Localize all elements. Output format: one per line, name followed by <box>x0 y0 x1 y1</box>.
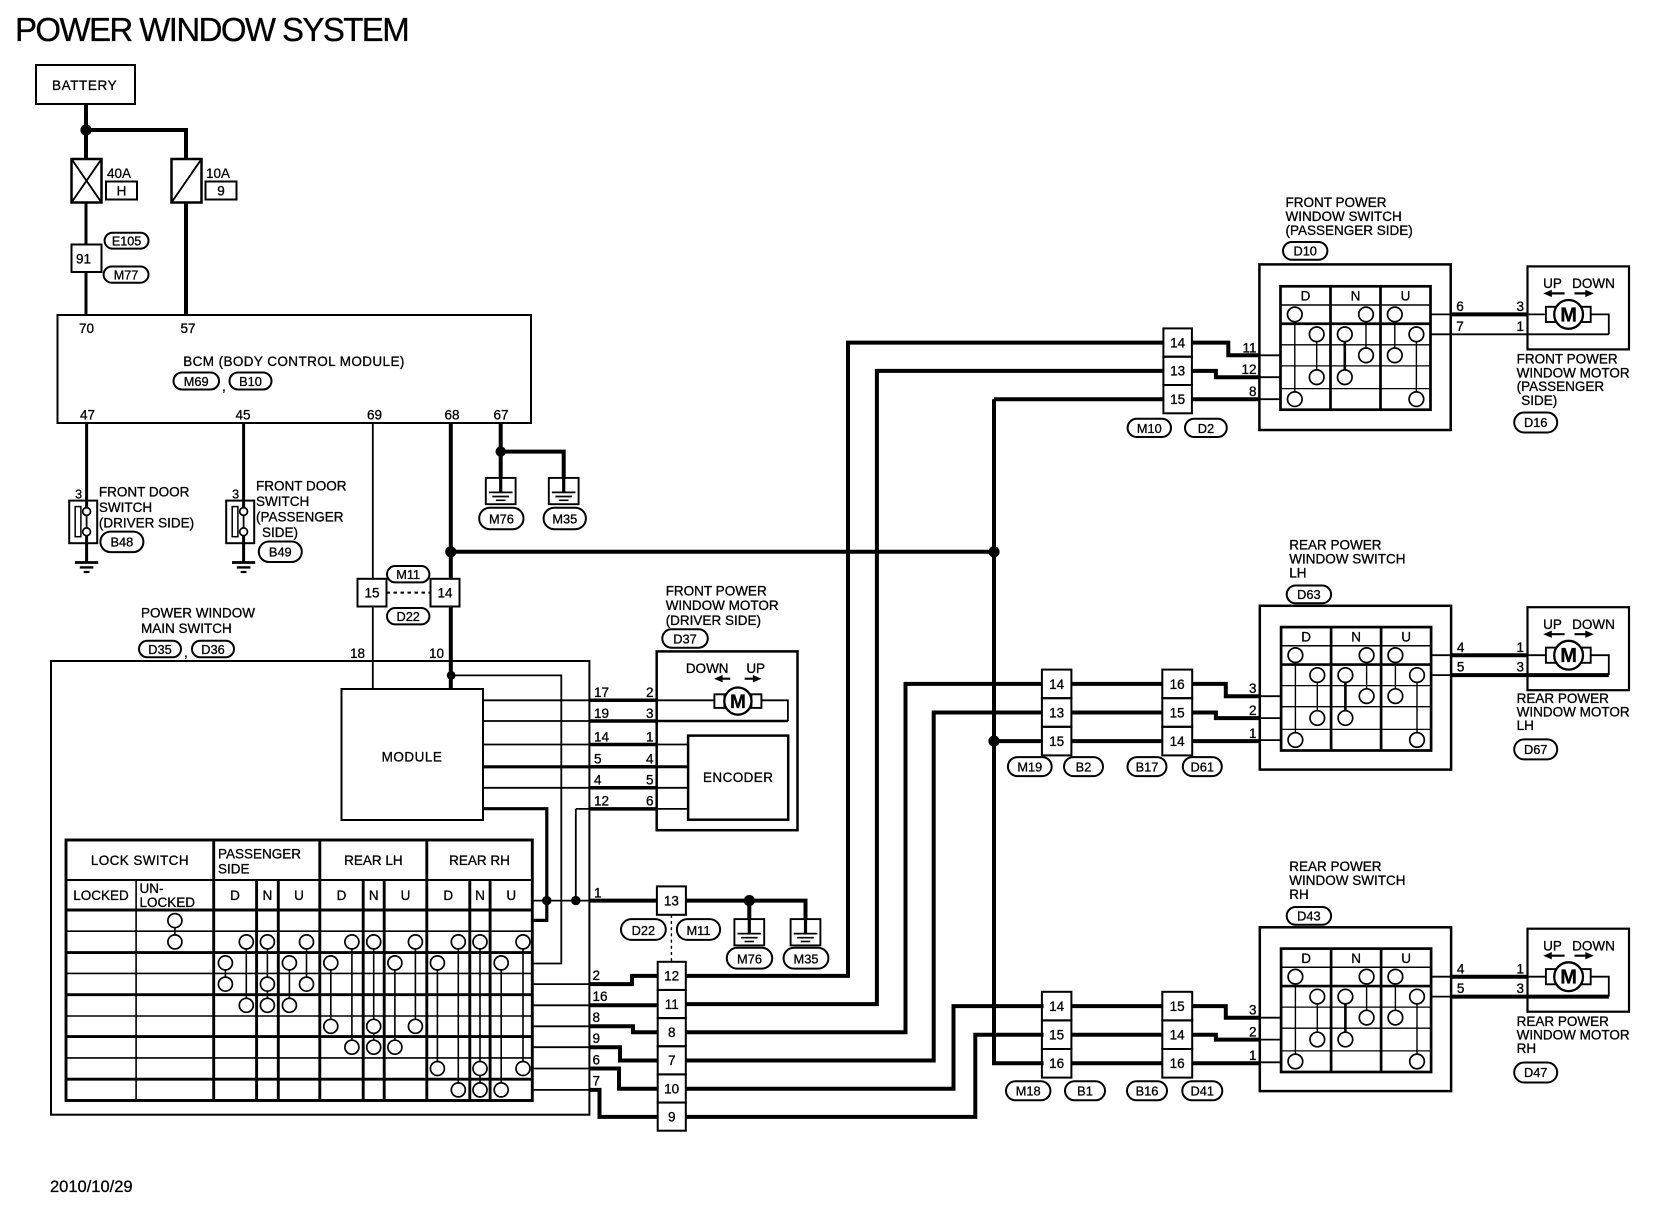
connector box 15 (left col D63) <box>1042 727 1072 756</box>
wire pin 2 to motor <box>657 699 715 701</box>
svg-text:69: 69 <box>367 408 382 423</box>
chassis ground below passenger door switch <box>232 563 255 573</box>
junction on power trunk <box>988 546 999 557</box>
wire connector 14 to main switch pin 10 <box>449 607 453 690</box>
svg-text:11: 11 <box>1242 340 1256 355</box>
wire pin10 branch to table row R3 <box>451 675 561 963</box>
connector box 13 (D10 feed) <box>1163 357 1192 385</box>
svg-text:D35: D35 <box>148 642 171 657</box>
svg-text:19: 19 <box>594 706 609 721</box>
connector B49 <box>259 542 302 563</box>
svg-text:3: 3 <box>1516 660 1524 675</box>
svg-text:WINDOW SWITCH: WINDOW SWITCH <box>1289 552 1405 567</box>
svg-text:ENCODER: ENCODER <box>703 770 773 785</box>
wire connector 15 to main switch pin 18 <box>372 607 374 690</box>
svg-text:47: 47 <box>80 408 95 423</box>
switch box D43 <box>1260 927 1451 1091</box>
wire encoder pin 6 <box>657 808 688 810</box>
svg-text:15: 15 <box>1049 734 1064 749</box>
rear RH contacts <box>430 935 530 1097</box>
wire module pin 5 (thick) <box>483 765 589 768</box>
wire D43 pin 1 <box>1192 1061 1260 1065</box>
connector D61 <box>1183 757 1222 776</box>
svg-text:M35: M35 <box>552 512 577 527</box>
svg-text:57: 57 <box>180 321 195 336</box>
connector box 15 (left col D43) <box>1042 1020 1072 1049</box>
wire table row to pin 6 <box>532 1068 589 1070</box>
wire D63 pin 2 <box>1192 713 1260 719</box>
connector box 16 (left col D43) <box>1042 1049 1072 1078</box>
svg-text:D16: D16 <box>1524 415 1547 430</box>
power window main switch box D35 D36 <box>51 661 589 1115</box>
svg-text:17: 17 <box>594 685 609 700</box>
svg-text:3: 3 <box>1249 1003 1257 1018</box>
svg-text:N: N <box>369 888 379 903</box>
svg-text:UN-: UN- <box>140 881 164 896</box>
wire 91 to BCM pin 70 <box>85 272 88 315</box>
svg-text:D63: D63 <box>1297 587 1320 602</box>
svg-text:WINDOW MOTOR: WINDOW MOTOR <box>666 598 779 613</box>
svg-text:4: 4 <box>1457 961 1465 976</box>
switch box D63 <box>1260 606 1451 770</box>
svg-text:5: 5 <box>594 752 602 767</box>
wire BCM pin 68 to connector 14 <box>449 423 453 579</box>
connector M35 label (top) <box>544 508 586 530</box>
connector box 15 <box>358 579 387 607</box>
svg-text:3: 3 <box>1249 681 1257 696</box>
svg-text:SWITCH: SWITCH <box>256 494 309 509</box>
connector D35 <box>139 641 181 658</box>
wire battery node to fuse 10A <box>86 130 186 159</box>
wire D43 pair row 15-14 <box>1071 1033 1162 1037</box>
connector M19 <box>1008 757 1052 776</box>
svg-text:M69: M69 <box>184 374 209 389</box>
svg-text:H: H <box>117 184 127 199</box>
svg-text:D61: D61 <box>1191 759 1214 774</box>
junction wire1 pin12 <box>571 896 580 905</box>
svg-text:3: 3 <box>75 488 82 502</box>
svg-text:(PASSENGER: (PASSENGER <box>1517 379 1605 394</box>
fuse 10A <box>172 159 202 203</box>
svg-text:13: 13 <box>1049 705 1064 720</box>
svg-text:15: 15 <box>1170 705 1185 720</box>
front power window motor (driver side) box D37 <box>657 651 798 830</box>
svg-text:14: 14 <box>1049 999 1065 1014</box>
label D67 motor <box>1517 691 1630 733</box>
wire 1 internal <box>532 900 589 902</box>
svg-text:2010/10/29: 2010/10/29 <box>50 1178 133 1196</box>
svg-text:11: 11 <box>665 997 679 1012</box>
wire main 7 to rear RH switch (trunk) <box>686 1035 1044 1117</box>
dashed link 13 to 12 <box>670 915 672 962</box>
svg-text:B16: B16 <box>1136 1084 1159 1099</box>
svg-text:U: U <box>294 888 304 903</box>
wire D43 pair row 14-15 <box>1071 1004 1162 1008</box>
encoder U-encoder <box>688 736 788 820</box>
svg-text:BCM (BODY CONTROL MODULE): BCM (BODY CONTROL MODULE) <box>183 354 405 369</box>
connector M35 label (lower) <box>784 948 829 969</box>
svg-text:D: D <box>337 888 347 903</box>
BCM body control module U-BCM <box>58 315 532 423</box>
svg-text:67: 67 <box>493 408 508 423</box>
wire 1 to connector 13 <box>589 899 657 903</box>
connector B10 <box>230 373 272 390</box>
svg-text:(PASSENGER SIDE): (PASSENGER SIDE) <box>1286 223 1413 238</box>
wire main 8 to rear LH switch (trunk) <box>686 684 1042 1032</box>
fuse 40A <box>72 159 102 203</box>
wire encoder pin 5 <box>657 787 688 789</box>
junction node pin68 feed <box>445 546 456 557</box>
label D16 motor <box>1517 352 1630 408</box>
wire BCM pin 69 to connector 15 <box>372 423 374 579</box>
wire pin 3 motor loop <box>657 720 788 722</box>
module U-module <box>342 689 484 820</box>
connector box 11 <box>658 990 686 1018</box>
motor box D67 <box>1528 607 1630 690</box>
connector M11 (lower) <box>677 919 720 940</box>
svg-text:REAR RH: REAR RH <box>449 853 510 868</box>
connector M77 <box>104 267 149 283</box>
svg-text:POWER WINDOW: POWER WINDOW <box>141 606 255 621</box>
wire table row to pin 16 <box>532 1004 589 1006</box>
wire table row to pin 2 <box>532 983 589 985</box>
wire D43 pair row 16-16 <box>1071 1061 1162 1065</box>
junction wire1 module ground <box>542 896 551 905</box>
wire D63 pin 1 <box>1192 739 1260 743</box>
svg-text:10A: 10A <box>206 166 230 181</box>
connector box 15 (right col D43) <box>1162 992 1192 1021</box>
connector box 7 <box>658 1046 686 1074</box>
svg-text:91: 91 <box>76 252 91 267</box>
connector D22 <box>387 608 429 624</box>
svg-text:1: 1 <box>646 729 654 744</box>
svg-text:5: 5 <box>646 773 654 788</box>
svg-text:9: 9 <box>217 184 225 199</box>
wire D10 pin 11 <box>1192 343 1260 356</box>
harness bar pins 19-3 <box>589 706 656 721</box>
power trunk wire <box>994 399 1163 1063</box>
svg-text:(PASSENGER: (PASSENGER <box>256 510 344 525</box>
svg-text:WINDOW MOTOR: WINDOW MOTOR <box>1517 365 1630 380</box>
front door switch (driver side) <box>69 501 97 544</box>
connector M18 <box>1006 1081 1050 1100</box>
dashed connector link 15-14 <box>387 592 431 594</box>
wire battery down <box>84 104 88 130</box>
wire D47 down-feed pins 5-3 <box>1431 996 1451 998</box>
svg-text:5: 5 <box>1457 981 1465 996</box>
motor box D16 <box>1528 266 1630 349</box>
junction pin67 ground split <box>496 446 506 456</box>
connector D41 <box>1182 1081 1222 1100</box>
svg-text:D10: D10 <box>1293 244 1316 259</box>
connector box 14 (D10 feed) <box>1163 328 1192 356</box>
connector box 9 <box>658 1103 686 1131</box>
connector D22 (lower) <box>621 919 666 940</box>
svg-text:RH: RH <box>1289 887 1309 902</box>
label 40A H <box>106 166 137 200</box>
svg-text:2: 2 <box>1249 703 1257 718</box>
svg-text:1: 1 <box>1516 640 1524 655</box>
svg-text:B1: B1 <box>1077 1084 1093 1099</box>
svg-text:13: 13 <box>664 893 679 908</box>
label power window main switch <box>141 606 255 637</box>
svg-text:1: 1 <box>1516 961 1524 976</box>
front door switch (passenger side) <box>226 501 254 544</box>
svg-text:FRONT DOOR: FRONT DOOR <box>256 479 347 494</box>
wire encoder pin 1 <box>657 744 688 746</box>
svg-text:14: 14 <box>1049 677 1065 692</box>
wire D67 down-feed pins 5-3 <box>1431 674 1451 676</box>
svg-text:(DRIVER SIDE): (DRIVER SIDE) <box>99 516 194 531</box>
wire module pin 19 <box>483 720 589 722</box>
svg-text:3: 3 <box>232 488 239 502</box>
wire power to LH connector 15 <box>994 739 1042 743</box>
wire 1 to grounds <box>686 901 806 920</box>
connector B16 <box>1127 1081 1167 1100</box>
label 10A 9 <box>206 166 237 200</box>
label D43 switch <box>1289 859 1405 902</box>
svg-text:REAR LH: REAR LH <box>344 853 403 868</box>
svg-text:13: 13 <box>1170 364 1185 379</box>
switch box D10 <box>1259 264 1450 430</box>
svg-text:N: N <box>475 888 485 903</box>
passenger side contacts <box>218 935 313 1012</box>
svg-text:B2: B2 <box>1076 759 1092 774</box>
svg-text:LOCKED: LOCKED <box>73 888 129 903</box>
svg-text:9: 9 <box>668 1109 676 1124</box>
connector D2 <box>1185 419 1227 437</box>
svg-text:12: 12 <box>594 794 609 809</box>
svg-text:D: D <box>230 888 240 903</box>
svg-text:1: 1 <box>1249 726 1257 741</box>
svg-text:16: 16 <box>1170 1056 1185 1071</box>
svg-text:4: 4 <box>1457 640 1465 655</box>
svg-text:REAR POWER: REAR POWER <box>1289 538 1382 553</box>
switch grid D10 <box>1281 286 1431 409</box>
svg-text:D: D <box>443 888 453 903</box>
svg-text:7: 7 <box>1456 319 1464 334</box>
svg-text:LH: LH <box>1289 566 1306 581</box>
svg-text:,: , <box>222 379 226 394</box>
table header labels <box>73 847 516 911</box>
wire main 6 to rear RH switch (trunk) <box>686 1006 1044 1089</box>
wire D10 pin 8 <box>1192 397 1260 401</box>
svg-text:18: 18 <box>350 646 365 661</box>
svg-text:SWITCH: SWITCH <box>99 500 152 515</box>
svg-text:SIDE): SIDE) <box>262 525 298 540</box>
wire D43 pin 3 <box>1192 1006 1260 1018</box>
label D10 switch <box>1286 195 1413 238</box>
svg-text:E105: E105 <box>112 235 141 249</box>
svg-text:FRONT POWER: FRONT POWER <box>1286 195 1387 210</box>
svg-text:68: 68 <box>444 408 459 423</box>
svg-text:14: 14 <box>1170 734 1186 749</box>
svg-text:10: 10 <box>429 646 444 661</box>
wire D67 up-feed pins 4-1 <box>1431 654 1451 656</box>
svg-text:U: U <box>506 888 516 903</box>
wire D63 pair row 13-15 <box>1071 711 1162 715</box>
svg-text:M76: M76 <box>737 951 762 966</box>
svg-text:2: 2 <box>1249 1024 1257 1039</box>
svg-text:15: 15 <box>364 585 379 600</box>
svg-text:WINDOW SWITCH: WINDOW SWITCH <box>1286 209 1402 224</box>
wire table row to pin 8 <box>532 1025 589 1027</box>
junction power trunk to rear LH <box>988 736 999 747</box>
svg-text:M: M <box>730 692 746 713</box>
ground M76 (top) <box>486 478 516 504</box>
svg-text:15: 15 <box>1170 999 1185 1014</box>
wire D16 down-feed pins 7-1 <box>1431 333 1451 335</box>
svg-text:D67: D67 <box>1524 742 1547 757</box>
wire D47 up-feed pins 4-1 <box>1431 976 1451 978</box>
svg-text:9: 9 <box>593 1031 601 1046</box>
connector D16 <box>1514 413 1557 433</box>
switch contact table <box>66 840 532 1101</box>
switch grid D63 <box>1281 627 1431 750</box>
svg-text:N: N <box>263 888 273 903</box>
connector box 15 (right col D63) <box>1162 698 1192 727</box>
svg-text:16: 16 <box>1170 677 1185 692</box>
svg-text:U: U <box>401 888 411 903</box>
svg-text:WINDOW SWITCH: WINDOW SWITCH <box>1289 873 1405 888</box>
svg-text:FRONT POWER: FRONT POWER <box>1517 352 1618 367</box>
svg-text:2: 2 <box>593 968 601 983</box>
connector box 13 (left col D63) <box>1042 698 1072 727</box>
svg-text:14: 14 <box>1170 1028 1186 1043</box>
wire pin 6 to connector box 10 <box>589 1069 657 1089</box>
wire module pin 17 <box>483 699 589 701</box>
svg-text:D22: D22 <box>396 609 419 624</box>
svg-text:(DRIVER SIDE): (DRIVER SIDE) <box>666 613 761 628</box>
wire feed to power trunk <box>451 550 994 554</box>
svg-text:M11: M11 <box>687 923 711 938</box>
connector M76 label (top) <box>479 508 523 530</box>
wire pin 7 to connector box 9 <box>589 1090 657 1117</box>
label D47 motor <box>1517 1014 1630 1056</box>
connector box 12 <box>658 962 686 990</box>
connector box 14 (left col D43) <box>1042 992 1072 1021</box>
rear LH contacts <box>324 935 423 1054</box>
svg-text:6: 6 <box>646 794 654 809</box>
ground M35 (top) <box>549 478 579 504</box>
label front door switch (passenger side) <box>256 479 347 541</box>
svg-text:M11: M11 <box>396 567 420 582</box>
wire D63 pair row 14-16 <box>1071 682 1162 686</box>
svg-text:D41: D41 <box>1191 1084 1214 1099</box>
connector B48 <box>100 532 143 553</box>
svg-text:SIDE: SIDE <box>218 862 250 877</box>
connector 91 <box>72 245 102 273</box>
wire table row to pin 9 <box>532 1046 589 1048</box>
svg-text:8: 8 <box>593 1010 601 1025</box>
svg-text:3: 3 <box>1516 981 1524 996</box>
junction wire1 ground split <box>744 895 755 906</box>
wire BCM pin 47 to front door switch (driver side) <box>85 423 88 508</box>
svg-text:B10: B10 <box>239 374 262 389</box>
connector M69 <box>174 373 220 390</box>
svg-text:3: 3 <box>1516 299 1524 314</box>
wire module ground pin to wire1 and lock row <box>483 809 547 921</box>
svg-text:3: 3 <box>646 706 654 721</box>
svg-text:D47: D47 <box>1524 1065 1547 1080</box>
wire BCM pin 45 to front door switch (passenger side) <box>242 423 245 508</box>
wire module pin 4 <box>483 787 589 789</box>
connector D36 <box>192 641 234 658</box>
wire D10 pin 12 <box>1192 371 1260 377</box>
wire main 16 to passenger switch N (trunk) <box>686 371 1164 1004</box>
wire module pin 14 <box>483 744 589 746</box>
svg-text:14: 14 <box>1170 335 1186 350</box>
connector box 14 (left col D63) <box>1042 670 1072 699</box>
wire main 9 to rear LH switch (trunk) <box>686 713 1042 1061</box>
svg-text:45: 45 <box>235 408 250 423</box>
svg-text:14: 14 <box>437 585 453 600</box>
svg-text:7: 7 <box>593 1074 601 1089</box>
connector D37 <box>662 629 708 648</box>
svg-text:FRONT DOOR: FRONT DOOR <box>99 485 190 500</box>
wire encoder pin 4 <box>657 765 688 768</box>
svg-text:8: 8 <box>1249 384 1257 399</box>
label front door switch (driver side) <box>99 485 194 531</box>
connector D10 <box>1283 242 1327 260</box>
motor box D47 <box>1528 929 1630 1012</box>
svg-text:15: 15 <box>1049 1028 1064 1043</box>
svg-text:REAR POWER: REAR POWER <box>1289 859 1382 874</box>
svg-text:M10: M10 <box>1137 421 1162 436</box>
svg-text:M77: M77 <box>114 269 139 283</box>
connector M10 <box>1128 419 1171 437</box>
connector D63 <box>1287 586 1331 604</box>
harness bar pins 12-6 <box>589 794 656 809</box>
svg-text:M18: M18 <box>1016 1084 1041 1099</box>
wire fuse 40A to connector 91 <box>85 203 88 245</box>
harness bar pins 5-4 <box>589 752 656 767</box>
svg-text:12: 12 <box>664 969 679 984</box>
svg-text:4: 4 <box>594 773 602 788</box>
svg-text:D43: D43 <box>1297 909 1320 924</box>
wire pin 9 to connector box 7 <box>589 1047 657 1060</box>
connector box 14 (right col D63) <box>1162 727 1192 756</box>
svg-text:LH: LH <box>1517 718 1534 733</box>
wire BCM pin 67 to grounds <box>501 423 564 478</box>
connector box 14 (right col D43) <box>1162 1020 1192 1049</box>
svg-text:RH: RH <box>1517 1041 1537 1056</box>
motor M driver side <box>686 661 765 715</box>
wire switch to ground <box>85 536 88 563</box>
harness bar pins 14-1 <box>589 729 656 744</box>
label D63 switch <box>1289 538 1405 581</box>
connector box 16 (right col D63) <box>1162 670 1192 699</box>
svg-text:M19: M19 <box>1017 759 1042 774</box>
svg-text:12: 12 <box>1241 362 1256 377</box>
connector E105 <box>105 233 149 249</box>
svg-text:BATTERY: BATTERY <box>52 78 117 93</box>
connector box 8 <box>658 1018 686 1046</box>
svg-text:8: 8 <box>668 1025 676 1040</box>
junction node pin10 internal <box>447 671 456 680</box>
svg-text:5: 5 <box>1457 660 1465 675</box>
svg-text:15: 15 <box>1170 392 1185 407</box>
ground M76 (lower) <box>734 919 764 945</box>
wire pin 12 stub to wire 1 <box>576 809 590 901</box>
connector B1 <box>1065 1081 1105 1100</box>
wire D16 up-feed pins 6-3 <box>1431 313 1451 315</box>
wire pin 2 to connector box 12 <box>589 976 657 984</box>
svg-text:SIDE): SIDE) <box>1521 393 1557 408</box>
connector B17 <box>1128 757 1167 776</box>
wire battery node to fuse 40A <box>84 130 88 159</box>
connector B2 <box>1064 757 1103 776</box>
